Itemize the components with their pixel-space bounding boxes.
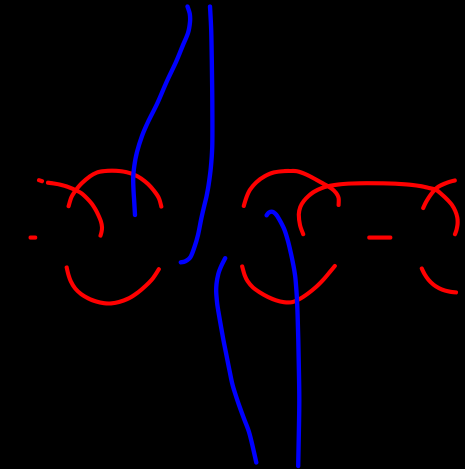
flat link S1 bottom-edge dash (red) xyxy=(369,236,390,240)
blue strand 2 xyxy=(181,7,213,263)
blue strand 3 xyxy=(216,258,256,462)
flat link S0 bottom-edge dash (red) xyxy=(31,236,36,240)
ring R3 top-left arc (red) xyxy=(423,181,455,209)
blue strand 4 xyxy=(267,212,300,466)
ring R3 bottom-left arc (red) xyxy=(422,269,456,293)
blue strand 1 xyxy=(133,7,190,216)
flat link S0 top-edge tip (red) xyxy=(39,180,42,181)
flat link S0 right side arch (red) xyxy=(48,183,102,236)
ring R2 bottom arc (red) xyxy=(242,266,335,302)
ring R2 top arc (red) xyxy=(244,171,339,206)
flat link S1 arch (red) xyxy=(299,183,458,234)
ring R1 top arc (red) xyxy=(69,171,162,207)
ring R1 bottom arc (red) xyxy=(67,268,159,304)
